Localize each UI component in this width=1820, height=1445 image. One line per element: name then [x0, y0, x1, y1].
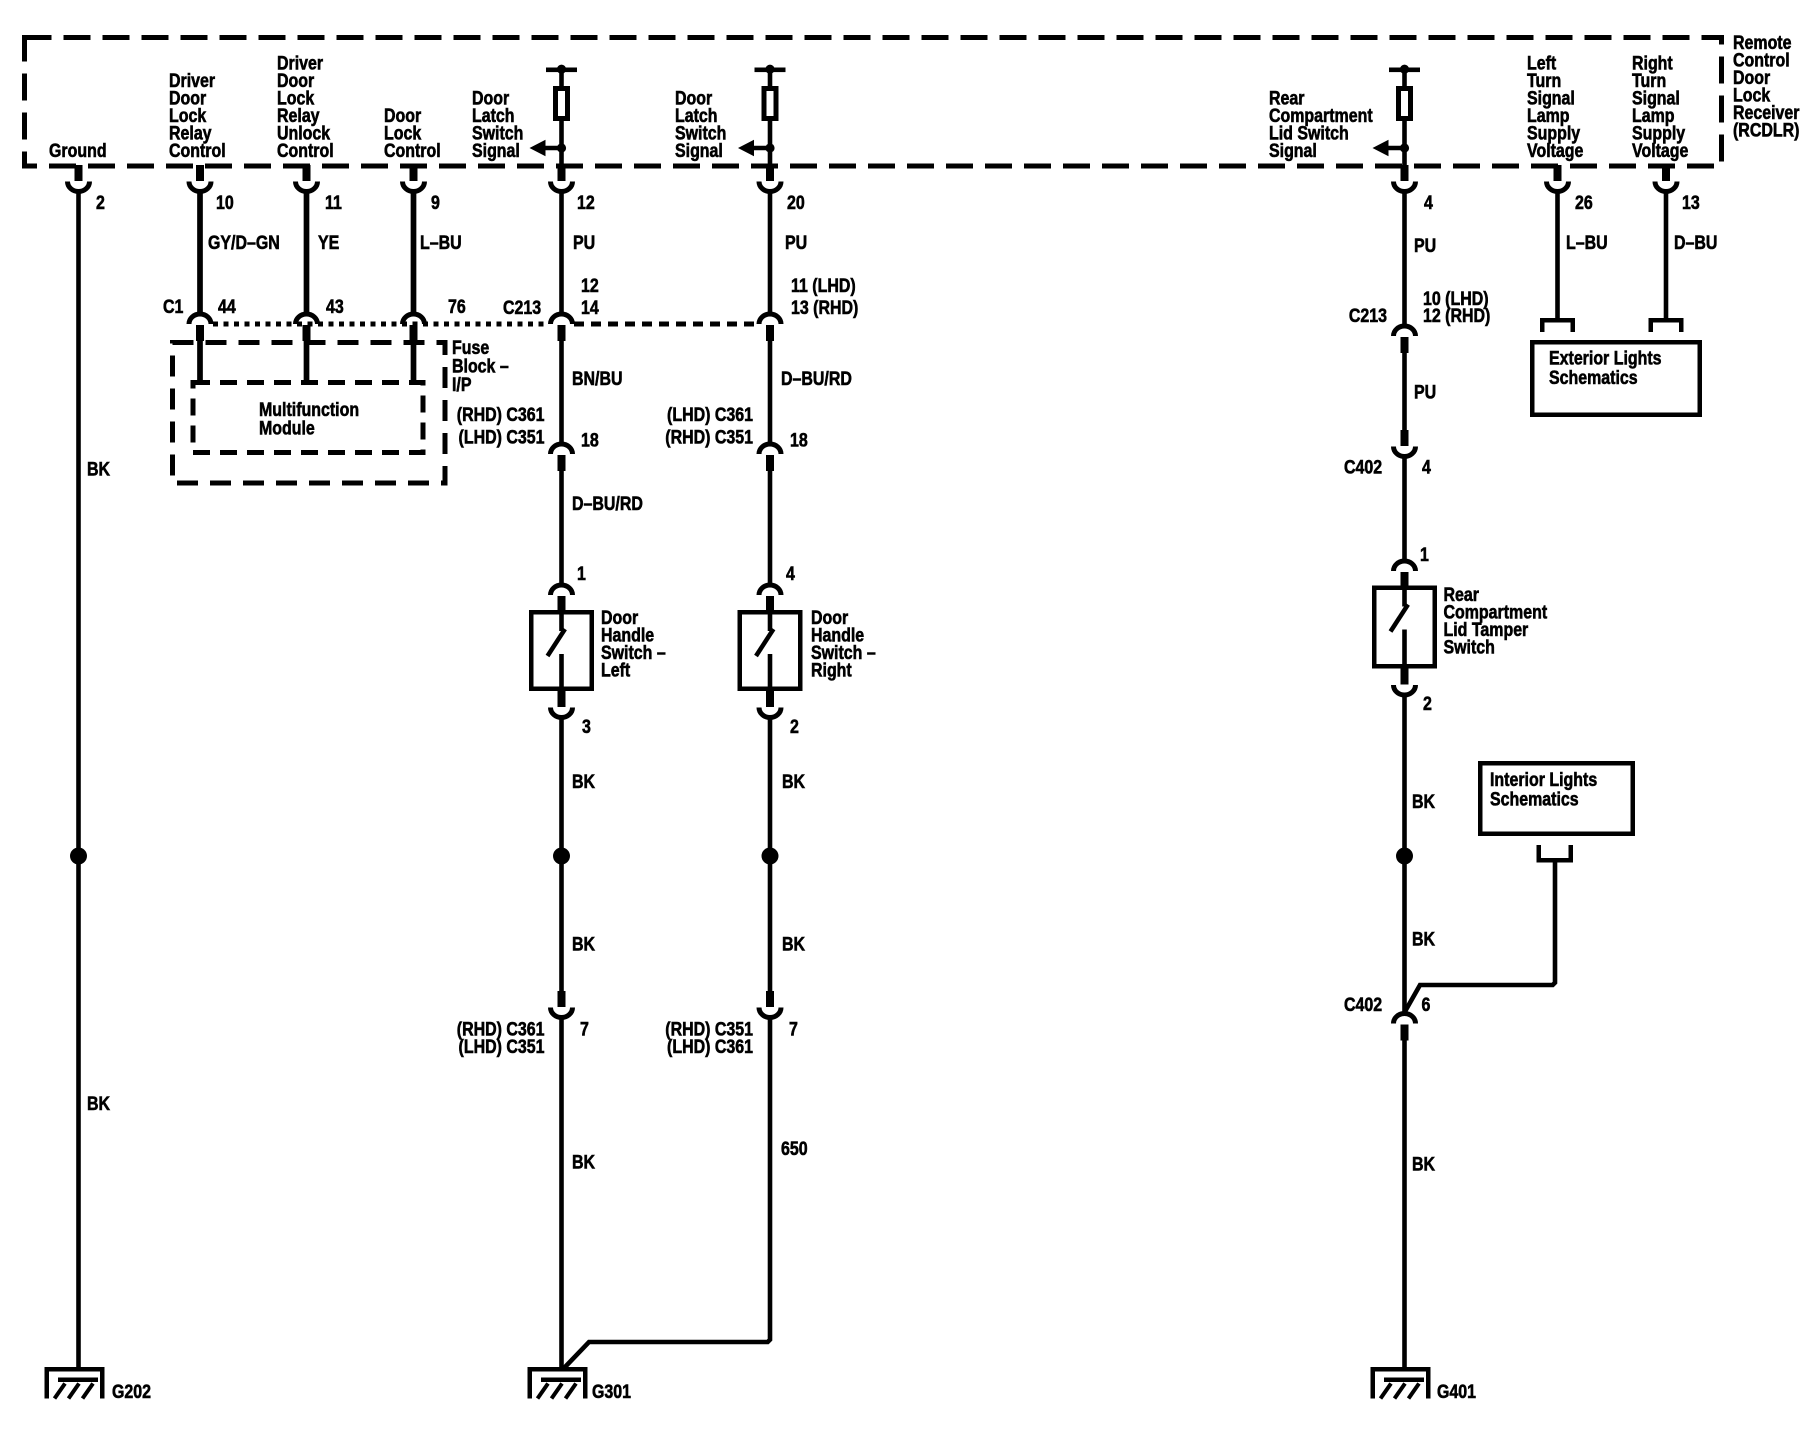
wire C213 to C361/C351 pin 18 (right) [768, 341, 773, 442]
RCDLR connector pin 11 [303, 165, 311, 181]
svg-text:12 (RHD): 12 (RHD) [1423, 305, 1490, 327]
svg-text:2: 2 [96, 192, 105, 214]
splice dot on rear lid wire [1396, 848, 1413, 865]
svg-text:Signal: Signal [472, 140, 520, 162]
svg-text:BK: BK [572, 771, 595, 793]
connector C213 pin 13 (right latch) [759, 314, 781, 324]
wire T-bar to internal resistor (left door latch) [559, 72, 564, 88]
svg-text:C1: C1 [163, 296, 184, 318]
svg-text:C402: C402 [1344, 994, 1382, 1016]
wire RCDLR to C1 pin 76 [411, 192, 417, 312]
wire pin 7 to ground G301 [559, 1018, 564, 1369]
connector tamper switch pin 1 [1394, 561, 1416, 571]
svg-text:Voltage: Voltage [1527, 140, 1584, 162]
connector C1 pin 44 [189, 314, 211, 324]
svg-text:4: 4 [1424, 192, 1433, 214]
svg-text:6: 6 [1422, 994, 1431, 1016]
off-page bracket (interior lights) [1537, 858, 1574, 863]
dashed jumper C213 pin 14 to pin 13 [574, 322, 757, 327]
Multifunction Module label [259, 399, 359, 439]
svg-text:(LHD) C351: (LHD) C351 [459, 426, 545, 448]
door handle switch left [531, 612, 592, 689]
pin numbers 12 / 14 [581, 275, 599, 319]
wire resistor to signal node (rear lid) [1402, 119, 1407, 165]
rear compartment lid tamper switch [1374, 588, 1435, 667]
connector C1 pin 76 [403, 314, 425, 324]
svg-text:PU: PU [1414, 235, 1436, 257]
wire C1 pin 44 to multifunction module [197, 341, 203, 381]
dotted connector line C1 [213, 322, 549, 327]
svg-text:Voltage: Voltage [1632, 140, 1689, 162]
RCDLR connector pin 20 [766, 165, 774, 181]
svg-text:Exterior Lights: Exterior Lights [1549, 347, 1662, 369]
component name Rear Compartment Lid Tamper Switch [1444, 584, 1548, 658]
svg-text:(LHD) C361: (LHD) C361 [667, 1036, 753, 1058]
RCDLR connector pin 26 [1554, 165, 1562, 181]
wire T-bar to internal resistor (rear lid) [1402, 72, 1407, 88]
svg-text:G301: G301 [592, 1381, 631, 1403]
svg-text:BK: BK [1412, 791, 1435, 813]
connector door handle switch left pin 3 [558, 691, 566, 707]
internal resistor element (right door latch) [764, 89, 776, 119]
wire BK ground (pin 2 to G202) [76, 192, 81, 1369]
svg-text:D–BU/RD: D–BU/RD [781, 368, 852, 390]
connector door handle switch right pin 4 [759, 585, 781, 595]
svg-text:(RHD) C361: (RHD) C361 [457, 404, 545, 426]
wire resistor to signal node (left door latch) [559, 119, 564, 165]
svg-text:7: 7 [580, 1018, 589, 1040]
connector C213 (rear column) [1394, 326, 1416, 336]
wire RCDLR to C1 pin 43 [304, 192, 310, 312]
svg-text:10: 10 [216, 192, 234, 214]
svg-text:GY/D–GN: GY/D–GN [208, 232, 280, 254]
svg-text:2: 2 [1423, 693, 1432, 715]
svg-text:12: 12 [581, 275, 599, 297]
ground symbol G202 [45, 1367, 105, 1372]
svg-text:(RHD) C351: (RHD) C351 [665, 426, 753, 448]
svg-text:I/P: I/P [452, 374, 472, 396]
svg-text:D–BU: D–BU [1674, 232, 1717, 254]
svg-text:BK: BK [1412, 928, 1435, 950]
connector name (RHD) C361 / (LHD) C351 (left lower) [457, 1018, 545, 1057]
wire pin 4 to C213 [1402, 192, 1407, 324]
svg-text:BK: BK [572, 933, 595, 955]
connector door handle switch right pin 2 [766, 691, 774, 707]
wire pin 12 to C213 pin 14 [559, 192, 564, 312]
connector C213 pin 14 [551, 314, 573, 324]
connector tamper switch pin 2 [1401, 669, 1409, 685]
svg-text:20: 20 [787, 192, 805, 214]
component name Door Handle Switch Left [601, 607, 666, 681]
svg-text:14: 14 [581, 297, 599, 319]
internal supply T-bar with node dot (rear lid) [1389, 68, 1420, 73]
wire pin 18 to door handle switch left pin 1 [559, 471, 564, 583]
svg-text:Signal: Signal [1269, 140, 1317, 162]
RCDLR module dashed outline box [25, 38, 1722, 167]
wire pin 18 to door handle switch right pin 4 [768, 471, 773, 583]
svg-text:BN/BU: BN/BU [572, 368, 622, 390]
connector name (RHD) C361 / (LHD) C351 (left upper) [457, 404, 545, 448]
svg-text:Right: Right [811, 659, 852, 681]
RCDLR connector pin 12 [558, 165, 566, 181]
svg-text:(RCDLR): (RCDLR) [1733, 119, 1799, 141]
Multifunction Module dashed box [193, 383, 423, 453]
signal direction arrow with node dot (rear lid) [1373, 140, 1389, 157]
splice dot on left latch wire [553, 848, 570, 865]
connector C361/C351 pin 7 (left) [558, 991, 566, 1007]
svg-text:Schematics: Schematics [1549, 367, 1638, 389]
ground symbol G401 [1371, 1367, 1431, 1372]
connector C351/C361 pin 7 (right) [766, 991, 774, 1007]
door handle switch right [740, 612, 801, 689]
pin label: Driver Door Lock Relay Control [169, 70, 226, 162]
wire C1 pin 43 to multifunction module [304, 341, 310, 381]
wire pin 20 to C213 pin 13 [768, 192, 773, 312]
svg-text:YE: YE [318, 232, 340, 254]
svg-text:11 (LHD): 11 (LHD) [791, 275, 856, 297]
pin label: Rear Compartment Lid Switch Signal [1269, 87, 1373, 161]
svg-text:Left: Left [601, 659, 630, 681]
internal supply T-bar with node dot (left door latch) [546, 68, 577, 73]
svg-text:BK: BK [1412, 1153, 1435, 1175]
wire C402 to rear lid tamper switch pin 1 [1402, 457, 1407, 559]
connector name (RHD) C351 / (LHD) C361 (right lower) [665, 1018, 753, 1057]
RCDLR connector pin 2 [75, 165, 83, 181]
svg-text:L–BU: L–BU [420, 232, 462, 254]
pin label: Ground [49, 140, 107, 162]
svg-text:G202: G202 [112, 1381, 151, 1403]
off-page bracket (right turn signal) [1649, 318, 1684, 323]
svg-text:Interior Lights: Interior Lights [1490, 769, 1597, 791]
signal direction arrow with node dot (right door latch) [738, 140, 754, 157]
svg-text:BK: BK [782, 933, 805, 955]
internal resistor element (rear lid) [1399, 89, 1411, 119]
svg-text:C402: C402 [1344, 456, 1382, 478]
svg-text:43: 43 [326, 296, 344, 318]
wire C213 to C402 pin 4 [1402, 353, 1407, 432]
wire RCDLR to C1 pin 44 [197, 192, 203, 312]
wire C213 to C361/C351 pin 18 (left) [559, 341, 564, 442]
wire pin 26 to exterior lights schematics [1555, 192, 1560, 320]
wire switch left pin 3 down [559, 718, 564, 992]
connector door handle switch left pin 1 [551, 585, 573, 595]
svg-text:4: 4 [1422, 456, 1431, 478]
RCDLR connector pin 9 [410, 165, 418, 181]
pin label: Driver Door Lock Relay Unlock Control [277, 52, 334, 161]
svg-text:Schematics: Schematics [1490, 788, 1579, 810]
wire tamper switch pin 2 to C402 pin 6 [1402, 695, 1407, 1012]
svg-text:Ground: Ground [49, 140, 107, 162]
svg-text:D–BU/RD: D–BU/RD [572, 493, 643, 515]
svg-text:18: 18 [581, 429, 599, 451]
svg-text:(LHD) C351: (LHD) C351 [459, 1036, 545, 1058]
svg-text:12: 12 [577, 192, 595, 214]
svg-text:13 (RHD): 13 (RHD) [791, 297, 858, 319]
connector name (LHD) C361 / (RHD) C351 (right upper) [665, 404, 753, 448]
connector C1 pin 43 [296, 314, 318, 324]
Interior Lights Schematics label [1490, 769, 1597, 810]
pin label: Door Latch Switch Signal (left) [472, 87, 523, 161]
svg-text:11: 11 [325, 192, 342, 214]
svg-text:7: 7 [789, 1018, 798, 1040]
svg-text:3: 3 [582, 716, 591, 738]
svg-text:Control: Control [169, 140, 226, 162]
pin numbers 10 (LHD) / 12 (RHD) [1423, 288, 1490, 327]
pin label: Door Latch Switch Signal (right) [675, 87, 726, 161]
svg-text:BK: BK [87, 1093, 110, 1115]
svg-text:Control: Control [277, 140, 334, 162]
svg-text:PU: PU [1414, 381, 1436, 403]
wire interior lights schematics to C402 pin 6 [1405, 861, 1555, 1012]
pin numbers 11 (LHD) / 13 (RHD) [791, 275, 858, 319]
svg-text:76: 76 [448, 296, 466, 318]
Interior Lights Schematics box [1480, 763, 1633, 834]
pin label: Right Turn Signal Lamp Supply Voltage [1632, 52, 1689, 161]
RCDLR connector pin 4 [1401, 165, 1409, 181]
connector C361/C351 pin 18 (left) [551, 444, 573, 454]
svg-text:4: 4 [786, 563, 795, 585]
svg-text:BK: BK [572, 1151, 595, 1173]
svg-text:26: 26 [1575, 192, 1593, 214]
svg-text:PU: PU [785, 232, 807, 254]
svg-text:BK: BK [87, 458, 110, 480]
connector C402 pin 4 [1401, 430, 1409, 446]
svg-text:Switch: Switch [1444, 636, 1495, 658]
internal supply T-bar with node dot (right door latch) [755, 68, 786, 73]
Exterior Lights Schematics label [1549, 347, 1662, 388]
RCDLR connector pin 13 [1662, 165, 1670, 181]
svg-text:PU: PU [573, 232, 595, 254]
internal resistor element (left door latch) [556, 89, 568, 119]
svg-text:Module: Module [259, 417, 315, 439]
svg-text:9: 9 [431, 192, 440, 214]
Exterior Lights Schematics box [1532, 342, 1700, 415]
svg-text:1: 1 [1420, 544, 1429, 566]
wire resistor to signal node (right door latch) [768, 119, 773, 165]
wire C402 pin 6 to ground G401 [1402, 1040, 1407, 1369]
svg-text:L–BU: L–BU [1566, 232, 1608, 254]
RCDLR connector pin 10 [196, 165, 204, 181]
svg-text:G401: G401 [1437, 1381, 1476, 1403]
component name Door Handle Switch Right [811, 607, 876, 681]
svg-text:1: 1 [577, 563, 586, 585]
svg-text:44: 44 [218, 296, 236, 318]
svg-text:Control: Control [384, 140, 441, 162]
svg-text:13: 13 [1682, 192, 1700, 214]
ground symbol G301 [528, 1367, 588, 1372]
svg-text:C213: C213 [503, 297, 541, 319]
pin label: Left Turn Signal Lamp Supply Voltage [1527, 52, 1584, 161]
signal direction arrow with node dot (left door latch) [530, 140, 546, 157]
splice dot on ground wire [70, 848, 87, 865]
wire pin 13 to exterior lights schematics [1664, 192, 1669, 320]
svg-text:C213: C213 [1349, 305, 1387, 327]
wire T-bar to internal resistor (right door latch) [768, 72, 773, 88]
pin label: Door Lock Control [384, 105, 441, 162]
wire switch right pin 2 down [768, 718, 773, 992]
module name: Remote Control Door Lock Receiver (RCDLR) [1733, 32, 1800, 141]
Fuse Block I/P dashed box [173, 343, 446, 484]
off-page bracket (left turn signal) [1540, 318, 1575, 323]
svg-text:(LHD) C361: (LHD) C361 [667, 404, 753, 426]
Fuse Block I/P label [452, 337, 509, 396]
connector C402 pin 6 [1394, 1014, 1416, 1024]
svg-text:Signal: Signal [675, 140, 723, 162]
wire C1 pin 76 to multifunction module [411, 341, 417, 381]
svg-text:BK: BK [782, 771, 805, 793]
svg-text:650: 650 [781, 1138, 808, 1160]
connector C361/C351 pin 18 (right) [759, 444, 781, 454]
svg-text:18: 18 [790, 429, 808, 451]
svg-text:2: 2 [790, 716, 799, 738]
splice dot on right latch wire [762, 848, 779, 865]
wire circuit 650 to ground G301 [563, 1018, 770, 1369]
